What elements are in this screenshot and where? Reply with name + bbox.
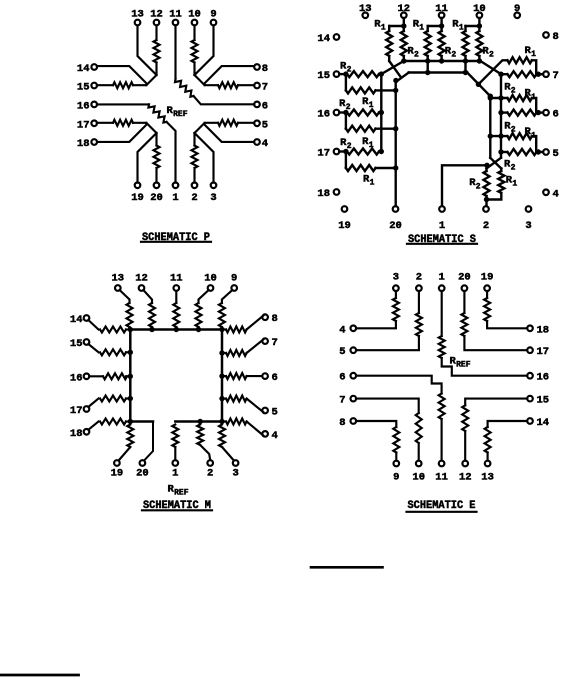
svg-text:5: 5 <box>262 119 268 131</box>
resistor (pin 9 to top bus) <box>222 290 233 303</box>
resistor R2 (vertical) <box>403 26 405 31</box>
svg-text:1: 1 <box>531 93 536 102</box>
arch top wire <box>409 71 468 73</box>
pin 13 terminal (M) <box>115 285 121 291</box>
svg-text:SCHEMATIC E: SCHEMATIC E <box>408 500 476 512</box>
pin 12 terminal (M) <box>139 285 145 291</box>
junction above pin 2 <box>484 197 489 202</box>
resistor R1 (vertical) <box>427 26 429 31</box>
wire node to R1 top <box>389 25 404 27</box>
svg-text:8: 8 <box>272 313 278 325</box>
resistor (pin 18 to left bus) <box>88 422 98 430</box>
resistor R1 (horizontal) <box>346 165 376 171</box>
junction on top bus <box>425 58 430 63</box>
svg-text:5: 5 <box>272 407 278 419</box>
junction R2 row on rail <box>498 110 503 115</box>
svg-text:5: 5 <box>553 148 559 160</box>
pin 9 terminal (E) <box>394 461 400 467</box>
junction ring corner <box>128 419 133 424</box>
pin 8 terminal (S) <box>543 32 549 38</box>
wire to corner apex <box>155 133 157 146</box>
junction at pin <box>343 110 348 115</box>
svg-text:17: 17 <box>317 148 330 160</box>
svg-text:11: 11 <box>170 273 183 285</box>
bus ring top wire <box>130 328 222 331</box>
svg-text:20: 20 <box>389 220 402 232</box>
resistor (vertical, corner group) <box>192 40 198 63</box>
wire pin 20 to bus end <box>144 422 153 461</box>
wire to corner apex <box>155 63 157 76</box>
svg-text:18: 18 <box>70 428 83 440</box>
junction at pin <box>343 71 348 76</box>
svg-text:1: 1 <box>369 141 374 150</box>
svg-text:2: 2 <box>346 103 351 112</box>
pin 3 terminal (P) <box>211 183 217 189</box>
svg-text:7: 7 <box>262 82 268 94</box>
pin 19 terminal (P) <box>135 183 141 189</box>
svg-text:9: 9 <box>514 3 520 15</box>
wire to inner side pin <box>238 122 254 124</box>
pin 8 terminal (M) <box>262 314 268 320</box>
svg-text:20: 20 <box>458 272 471 284</box>
svg-text:6: 6 <box>262 100 268 112</box>
svg-text:6: 6 <box>272 372 278 384</box>
resistor (pin 2 to bus) <box>197 425 203 446</box>
pin 18 terminal (E) <box>527 326 533 332</box>
junction on left bus <box>128 396 133 401</box>
resistor RREF (pin 1 to bus) <box>172 425 178 448</box>
wire pin 16 horizontal <box>97 103 149 105</box>
svg-text:2: 2 <box>191 192 197 204</box>
wire apex to side-row bend <box>133 75 157 85</box>
svg-text:16: 16 <box>77 100 90 112</box>
junction on left bus <box>128 374 133 379</box>
svg-text:1: 1 <box>439 220 445 232</box>
svg-text:2: 2 <box>414 51 419 60</box>
svg-text:10: 10 <box>204 273 217 285</box>
svg-text:1: 1 <box>370 179 375 188</box>
pin 10 terminal (E) <box>416 461 422 467</box>
resistor R2 (horizontal) <box>507 149 536 155</box>
resistor (pin 4 to right bus) <box>222 420 226 422</box>
wire to pin 6 line <box>194 96 255 104</box>
wire apex to side-row bend <box>133 123 157 133</box>
resistor (pin 7 to pin 10) <box>356 399 419 413</box>
pin 13 terminal (E) <box>485 461 491 467</box>
pin 14 terminal (E) <box>527 418 533 424</box>
svg-text:13: 13 <box>359 3 372 15</box>
resistor R1 (horizontal) <box>346 126 376 132</box>
wire outer-bottom pin diagonal <box>195 133 214 183</box>
junction R2 row on rail <box>498 149 503 154</box>
wire R1 bottom <box>388 56 390 61</box>
svg-text:1: 1 <box>172 468 178 480</box>
wire apex to side-row bend <box>195 75 219 85</box>
pin 18 terminal (S) <box>334 189 340 195</box>
svg-text:1: 1 <box>459 24 464 33</box>
svg-text:19: 19 <box>131 192 144 204</box>
svg-text:8: 8 <box>262 63 268 75</box>
svg-text:18: 18 <box>537 324 550 336</box>
svg-text:20: 20 <box>136 468 149 480</box>
pin 1 terminal (E) <box>439 285 445 291</box>
svg-text:6: 6 <box>339 372 345 384</box>
bus ring bottom-right wire <box>175 420 222 423</box>
wire outer side pin diagonal <box>205 123 254 142</box>
svg-text:1: 1 <box>172 192 178 204</box>
pin 12 terminal (S) <box>401 13 407 19</box>
resistor R2 (horizontal) <box>507 71 536 77</box>
junction at pin <box>536 110 541 115</box>
resistor (pin 3 to pin 4) <box>395 291 397 298</box>
svg-text:13: 13 <box>131 9 144 21</box>
junction on right bus <box>219 350 224 355</box>
resistor (pin 13 to top bus) <box>120 290 130 303</box>
pin 7 terminal (M) <box>262 338 268 344</box>
pin 6 terminal (E) <box>351 373 357 379</box>
pin 19 terminal (E) <box>484 285 490 291</box>
svg-text:16: 16 <box>537 372 550 384</box>
pin 20 terminal (E) <box>462 285 468 291</box>
junction R1 row on arch leg <box>488 95 493 100</box>
svg-text:17: 17 <box>70 405 83 417</box>
svg-text:1: 1 <box>531 50 536 59</box>
svg-text:11: 11 <box>169 9 182 21</box>
pin 2 terminal (E) <box>416 285 422 291</box>
resistor (pin 8 to right bus) <box>222 328 226 330</box>
junction at pin <box>536 149 541 154</box>
pin 4 terminal (M) <box>262 431 268 437</box>
junction <box>463 70 468 75</box>
resistor R2 (horizontal) <box>339 73 346 75</box>
bus ring left wire <box>129 330 132 422</box>
wire R1 row <box>490 97 507 99</box>
pin 6 terminal (P) <box>254 102 260 108</box>
wire inner-bottom pin vertical <box>155 26 157 41</box>
resistor (pin 15 to left bus) <box>88 344 98 352</box>
resistor (pin 2 to pin 5) <box>418 291 420 313</box>
resistor R1 (horizontal) <box>507 95 532 101</box>
pin 7 terminal (S) <box>543 71 549 77</box>
wire apex to side-row bend <box>195 123 219 133</box>
svg-text:11: 11 <box>435 3 448 15</box>
svg-text:7: 7 <box>553 70 559 82</box>
svg-text:9: 9 <box>231 273 237 285</box>
wire inner-bottom pin vertical <box>155 168 157 183</box>
pin 8 terminal (P) <box>254 64 260 70</box>
arch right shoulder wire <box>467 73 490 97</box>
resistor R2 (vertical) <box>478 26 480 31</box>
pin 3 terminal (M) <box>233 460 239 466</box>
junction on top bus <box>439 58 444 63</box>
resistor (pin 11 to pin 6 chain) <box>175 79 194 97</box>
svg-text:7: 7 <box>339 395 345 407</box>
svg-text:9: 9 <box>210 9 216 21</box>
svg-text:13: 13 <box>481 472 494 484</box>
resistor R1 (vertical) <box>388 26 390 31</box>
resistor RREF (pin 16 to pin 1) <box>148 104 166 122</box>
resistor (pin 3 to bus) <box>219 425 225 448</box>
top bus wire <box>404 60 481 62</box>
resistor R1 pin7 (over the top) <box>507 57 532 63</box>
junction R1 row on rail <box>498 133 503 138</box>
junction pin 2 on bus <box>198 419 203 424</box>
resistor (horizontal, corner group) <box>218 82 238 88</box>
wire outer-bottom pin diagonal <box>195 26 214 76</box>
pin 5 terminal (M) <box>262 408 268 414</box>
svg-text:1: 1 <box>419 24 424 33</box>
wire node to R1 top <box>466 25 480 27</box>
junction <box>393 78 398 83</box>
bus ring right wire <box>221 330 224 422</box>
junction <box>439 23 444 28</box>
wire pin drop to R1 <box>345 74 347 90</box>
pin 10 terminal (S) <box>477 13 483 19</box>
svg-text:2: 2 <box>451 51 456 60</box>
junction ring corner <box>219 327 224 332</box>
pin 9 terminal (S) <box>514 13 520 19</box>
junction at pin <box>536 72 541 77</box>
junction on top bus <box>401 58 406 63</box>
svg-text:17: 17 <box>537 346 550 358</box>
wire to inner side pin <box>97 122 113 124</box>
resistor (pin 19 to bus) <box>127 425 133 448</box>
junction <box>425 70 430 75</box>
arch left leg wire <box>395 81 397 206</box>
svg-text:2: 2 <box>416 272 422 284</box>
svg-text:3: 3 <box>210 192 216 204</box>
pin 17 terminal (S) <box>334 149 340 155</box>
svg-text:2: 2 <box>476 182 481 191</box>
pin 15 terminal (M) <box>84 339 90 345</box>
pin 15 terminal (E) <box>527 396 533 402</box>
wire to corner apex <box>193 63 195 76</box>
pin 20 terminal (M) <box>140 460 146 466</box>
wire R1 row <box>490 135 507 137</box>
svg-text:19: 19 <box>481 272 494 284</box>
resistor R2 (horizontal) <box>339 150 346 152</box>
svg-text:10: 10 <box>473 3 486 15</box>
junction on arch leg <box>393 126 398 131</box>
junction on right bus <box>219 396 224 401</box>
svg-text:6: 6 <box>553 109 559 121</box>
svg-text:4: 4 <box>339 324 345 336</box>
pin 15 terminal (P) <box>91 83 97 89</box>
svg-text:18: 18 <box>77 138 90 150</box>
svg-text:15: 15 <box>70 338 83 350</box>
resistor (pin 17 to left bus) <box>88 399 98 408</box>
junction on left bus <box>128 350 133 355</box>
pin 13 terminal (P) <box>135 20 141 26</box>
pin 10 terminal (P) <box>192 20 198 26</box>
pin 17 terminal (M) <box>84 406 90 412</box>
junction on top bus <box>463 58 468 63</box>
resistor R2 (horizontal) <box>507 110 536 116</box>
wire to inner side pin <box>97 84 113 86</box>
pin 18 terminal (P) <box>91 139 97 145</box>
pin 13 terminal (S) <box>363 13 369 19</box>
svg-text:12: 12 <box>397 3 410 15</box>
wire pin 11 vertical <box>174 25 176 79</box>
svg-text:12: 12 <box>150 9 163 21</box>
wire outer-bottom pin diagonal <box>138 133 157 183</box>
junction <box>401 23 406 28</box>
pin 2 terminal (M) <box>207 460 213 466</box>
junction <box>477 23 482 28</box>
resistor (pin 5 to right bus) <box>222 398 226 400</box>
wire to pin 1 <box>167 122 176 183</box>
svg-text:13: 13 <box>111 273 124 285</box>
svg-text:4: 4 <box>272 430 278 442</box>
svg-text:12: 12 <box>135 273 148 285</box>
bus ring bottom-left wire <box>130 420 153 423</box>
pin 4 terminal (E) <box>351 326 357 332</box>
svg-text:8: 8 <box>339 417 345 429</box>
diagonal wire arch shoulder to pin7 R1 <box>478 60 507 84</box>
resistor R2 (horizontal) <box>339 111 346 113</box>
wire pin drop to R1 <box>345 113 347 129</box>
pin 1 terminal (P) <box>173 183 179 189</box>
wire pin10 R1 to arch top <box>464 61 466 73</box>
resistor (pin 12 to top bus) <box>143 290 152 303</box>
junction at pin <box>343 149 348 154</box>
junction on arch leg <box>393 88 398 93</box>
resistor R1 (vertical) <box>464 26 466 31</box>
pin 9 terminal (P) <box>211 20 217 26</box>
pin 6 terminal (M) <box>262 373 268 379</box>
svg-text:4: 4 <box>262 138 268 150</box>
svg-text:8: 8 <box>553 31 559 43</box>
resistor (pin 8 to pin 9) <box>356 421 396 427</box>
junction R1 row on rail <box>498 95 503 100</box>
resistor (pin 20 to pin 17) <box>463 291 465 313</box>
svg-text:2: 2 <box>207 468 213 480</box>
svg-text:5: 5 <box>339 346 345 358</box>
resistor (pin 7 to right bus) <box>222 352 226 354</box>
wire outer side pin diagonal <box>97 66 146 85</box>
arch left shoulder wire <box>396 73 409 83</box>
resistor (vertical, corner group) <box>154 146 160 169</box>
diagonal wire bus-start to left rail <box>381 61 404 74</box>
horizontal rule (center) <box>311 566 383 569</box>
resistor (pin 10 to top bus) <box>199 290 209 303</box>
pin 14 terminal (M) <box>84 315 90 321</box>
resistor (vertical, corner group) <box>154 40 160 63</box>
left inner rail wire <box>380 74 382 151</box>
pin 7 terminal (E) <box>351 396 357 402</box>
pin 11 terminal (M) <box>174 285 180 291</box>
svg-text:11: 11 <box>435 472 448 484</box>
pin 1 terminal (M) <box>173 460 179 466</box>
svg-text:REF: REF <box>173 110 188 119</box>
wire to corner apex <box>193 133 195 146</box>
pin 19 terminal (S) <box>342 206 348 212</box>
pin 4 terminal (P) <box>254 139 260 145</box>
resistor R1 (horizontal) <box>346 87 376 93</box>
svg-text:15: 15 <box>77 82 90 94</box>
resistor (pin 6 to right bus) <box>222 375 226 377</box>
wire outer side pin diagonal <box>97 123 146 142</box>
pin 17 terminal (E) <box>527 347 533 353</box>
junction on arch leg <box>393 165 398 170</box>
junction <box>488 94 493 99</box>
junction R1 row on arch leg <box>488 133 493 138</box>
svg-text:4: 4 <box>553 188 559 200</box>
svg-text:REF: REF <box>456 361 471 370</box>
junction ring corner <box>128 327 133 332</box>
wire outer side pin diagonal <box>205 66 254 85</box>
resistor R2 (vertical) <box>440 26 442 31</box>
svg-text:10: 10 <box>412 472 425 484</box>
pin 19 terminal (M) <box>114 460 120 466</box>
pin 1 terminal (S) <box>439 206 445 212</box>
pin 7 terminal (P) <box>254 83 260 89</box>
pin 3 terminal (S) <box>526 206 532 212</box>
pin 11 terminal (S) <box>439 13 445 19</box>
svg-text:2: 2 <box>489 51 494 60</box>
junction on top bus <box>174 327 179 332</box>
junction on top bus <box>477 58 482 63</box>
pin 12 terminal (P) <box>154 20 160 26</box>
svg-text:7: 7 <box>272 337 278 349</box>
svg-text:9: 9 <box>393 472 399 484</box>
svg-text:15: 15 <box>317 70 330 82</box>
junction ring corner <box>219 419 224 424</box>
wire R1 bottom <box>427 56 429 61</box>
pin 9 terminal (M) <box>231 285 237 291</box>
diagonal wire right rail to R2 <box>487 158 502 169</box>
junction <box>476 82 481 87</box>
junction on rail <box>379 110 384 115</box>
resistor (vertical, corner group) <box>192 146 198 169</box>
resistor (pin 15 to pin 12) <box>465 399 527 406</box>
resistor (pin 14 to pin 13) <box>488 421 528 427</box>
svg-text:15: 15 <box>537 395 550 407</box>
svg-text:2: 2 <box>511 87 516 96</box>
svg-text:10: 10 <box>188 9 201 21</box>
svg-text:17: 17 <box>77 119 90 131</box>
resistor R1 (horizontal) <box>507 133 532 139</box>
junction on rail <box>379 149 384 154</box>
diagonal wire bus-end to right rail <box>480 61 501 74</box>
pin 16 terminal (M) <box>84 374 90 380</box>
svg-text:14: 14 <box>70 314 83 326</box>
resistor (horizontal, corner group) <box>113 82 133 88</box>
pin 16 terminal (P) <box>91 102 97 108</box>
resistor (horizontal, corner group) <box>218 120 238 126</box>
svg-text:2: 2 <box>511 164 516 173</box>
wire inner-bottom pin vertical <box>193 26 195 41</box>
wire pin drop to node <box>403 18 405 26</box>
pin 11 terminal (P) <box>173 20 179 26</box>
svg-text:14: 14 <box>317 33 330 45</box>
resistor (horizontal, corner group) <box>113 120 133 126</box>
svg-text:2: 2 <box>483 220 489 232</box>
svg-text:12: 12 <box>459 472 472 484</box>
wire pin drop to node <box>478 18 480 26</box>
svg-text:19: 19 <box>338 220 351 232</box>
pin 3 terminal (E) <box>393 285 399 291</box>
svg-text:3: 3 <box>393 272 399 284</box>
resistor R2 (to pin 2) <box>485 169 487 172</box>
svg-text:1: 1 <box>369 101 374 110</box>
svg-text:1: 1 <box>381 24 386 33</box>
svg-text:20: 20 <box>150 192 163 204</box>
resistor R1 (to pin 2) <box>500 169 502 172</box>
pin 5 terminal (P) <box>254 121 260 127</box>
svg-text:3: 3 <box>232 468 238 480</box>
svg-text:16: 16 <box>70 372 83 384</box>
